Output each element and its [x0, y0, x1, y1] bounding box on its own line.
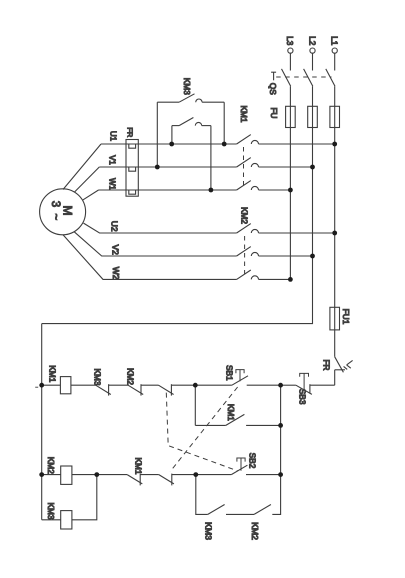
- button SB2 start normally-open: [231, 458, 247, 475]
- switch QS pole 1 blade: [282, 69, 291, 86]
- wire node vertical right: [280, 385, 282, 474]
- contact KM2 auxiliary NO: [254, 505, 271, 515]
- terminal L3: [288, 48, 293, 71]
- contact FR normally-closed: [335, 357, 353, 385]
- wire SB2 NC to node: [171, 384, 195, 386]
- contact KM1 main linkage dashed: [243, 147, 245, 187]
- wire W2 motor diagonal: [63, 235, 237, 280]
- svg-text:W2: W2: [111, 267, 121, 280]
- contact KM2 auxiliary NC: [128, 384, 143, 395]
- wire U2 motor diagonal: [84, 223, 237, 233]
- svg-text:KM1: KM1: [239, 105, 249, 122]
- wire rail D to node: [272, 475, 280, 515]
- svg-text:KM3: KM3: [182, 78, 192, 95]
- wire stub left of rail A dot: [35, 386, 38, 388]
- svg-text:SB3: SB3: [298, 389, 308, 405]
- svg-text:KM2: KM2: [250, 522, 260, 540]
- switch QS handle T: [271, 72, 276, 80]
- wire coil KM3 up to node: [72, 475, 97, 520]
- svg-text:W1: W1: [108, 178, 117, 191]
- button SB3 stop normally-closed: [296, 373, 312, 394]
- button SB1 start normally-open: [232, 370, 248, 386]
- wire KM1 NC to SB1 NC: [140, 474, 159, 476]
- contact KM2 main linkage dashed: [244, 236, 246, 276]
- wire phase L2 vertical: [312, 128, 314, 257]
- svg-text:KM1: KM1: [133, 457, 143, 474]
- svg-text:FR: FR: [322, 359, 332, 370]
- wire KM3 pole2 right down to line3: [210, 126, 212, 190]
- svg-text:KM3: KM3: [93, 368, 103, 385]
- contact KM1 main pole 2: [99, 158, 312, 167]
- svg-text:FR: FR: [126, 127, 135, 138]
- wire node to KM1 NC: [97, 474, 127, 476]
- thermal relay FR heater box: [126, 140, 138, 197]
- coil KM1: [60, 377, 71, 394]
- svg-text:KM2: KM2: [126, 368, 136, 385]
- wire U1 motor diagonal: [63, 144, 101, 190]
- svg-text:~: ~: [49, 213, 61, 220]
- contact KM2 main pole 3: [237, 270, 291, 279]
- wire KM3 pole2 left down to line1: [171, 126, 173, 144]
- linkage SB2 dashed: [166, 393, 238, 471]
- wire coil KM1 to KM3 NC: [71, 384, 96, 386]
- wire KM3 coil branch: [42, 519, 61, 521]
- contact KM2 main pole 1: [237, 224, 335, 233]
- contact KM1 auxiliary NC interlock: [127, 474, 142, 486]
- wire node to SB1: [195, 384, 232, 386]
- switch QS linkage dashed: [276, 76, 331, 78]
- wire KM3 NC to KM2 NC: [109, 384, 129, 386]
- wire node down to rail B: [194, 385, 196, 425]
- fuse FU phase L1: [330, 106, 340, 127]
- node junction dots: [39, 142, 337, 477]
- wire rail A coil feed: [42, 384, 61, 386]
- wire L1 QS to fuse: [334, 86, 336, 106]
- svg-text:L2: L2: [307, 36, 317, 46]
- wire L2 QS to fuse: [312, 86, 314, 106]
- motor M1 circle: [40, 189, 86, 235]
- wire node down to rail D: [196, 475, 208, 515]
- contact KM2 main pole 2: [237, 247, 313, 256]
- svg-text:KM3: KM3: [46, 502, 56, 519]
- fuse FU1: [330, 307, 340, 330]
- contact KM1 main pole 1: [101, 135, 335, 144]
- svg-text:FU: FU: [269, 107, 279, 118]
- switch QS pole 2 blade: [304, 69, 313, 86]
- button SB2 NC contact: [159, 384, 174, 395]
- wire KM3 pole1 right down to line1: [223, 102, 225, 144]
- fuse FU phase L2: [308, 106, 318, 127]
- wire SB1 NC to node: [172, 474, 196, 476]
- svg-text:FU1: FU1: [341, 309, 351, 325]
- wire phase L3 vertical: [289, 128, 291, 280]
- terminal L2: [310, 48, 315, 71]
- svg-text:L3: L3: [285, 36, 295, 46]
- svg-text:QS: QS: [268, 83, 278, 95]
- svg-text:V2: V2: [110, 244, 120, 255]
- wire W1 motor diagonal: [82, 190, 98, 200]
- wire V1 motor diagonal: [74, 167, 99, 192]
- contact KM3 main pole 2: [172, 118, 211, 126]
- switch QS pole 3 blade: [326, 69, 335, 86]
- svg-text:SB1: SB1: [225, 365, 235, 381]
- svg-text:U2: U2: [110, 221, 120, 232]
- svg-text:KM1: KM1: [226, 404, 236, 421]
- svg-text:V1: V1: [108, 155, 117, 165]
- svg-text:KM2: KM2: [239, 207, 249, 224]
- wire phase L1 vertical: [334, 128, 336, 308]
- fuse FU phase L3: [286, 106, 296, 127]
- svg-text:L1: L1: [330, 36, 340, 46]
- wire SB2 to node: [246, 474, 281, 476]
- linkage SB1 dashed: [170, 387, 237, 472]
- wire coil KM2 to node: [72, 474, 97, 476]
- svg-text:KM1: KM1: [48, 365, 58, 382]
- contact KM1 main pole 3: [99, 181, 291, 190]
- svg-text:3: 3: [49, 201, 61, 207]
- wire rail B start: [195, 424, 226, 426]
- contact KM3 auxiliary NC: [96, 384, 111, 395]
- terminal L1: [332, 48, 337, 71]
- wire KM3 pole1 left down to line2: [156, 102, 158, 167]
- svg-text:U1: U1: [109, 131, 118, 142]
- wire FR to SB3: [310, 384, 335, 386]
- svg-text:M: M: [61, 206, 75, 216]
- wire SB1 to node: [247, 384, 281, 386]
- wire rail C coil feed: [42, 474, 61, 476]
- coil KM3: [61, 511, 72, 529]
- coil KM2: [61, 466, 72, 484]
- wire V2 motor diagonal: [74, 232, 237, 256]
- wire L2 down to control rail corner: [42, 256, 313, 324]
- svg-text:SB2: SB2: [248, 453, 258, 469]
- wire FU1 to FR contact: [334, 330, 336, 357]
- control rail A left: [41, 324, 43, 520]
- wire KM1 NO to node: [246, 424, 281, 426]
- svg-text:KM3: KM3: [204, 522, 214, 540]
- svg-text:KM2: KM2: [46, 457, 56, 474]
- contact KM1 auxiliary NO self-hold: [226, 414, 245, 425]
- wire SB3 to node: [281, 384, 296, 386]
- button SB1 NC contact: [159, 474, 174, 486]
- contact KM3 auxiliary NO: [208, 505, 225, 515]
- contact KM3 main pole 1: [157, 94, 224, 102]
- wire L3 QS to fuse: [289, 86, 291, 106]
- wire KM2 NC to SB2 NC: [141, 384, 159, 386]
- wire between KM3 NO and KM2 NO: [226, 513, 254, 515]
- wire node to SB2: [196, 474, 232, 476]
